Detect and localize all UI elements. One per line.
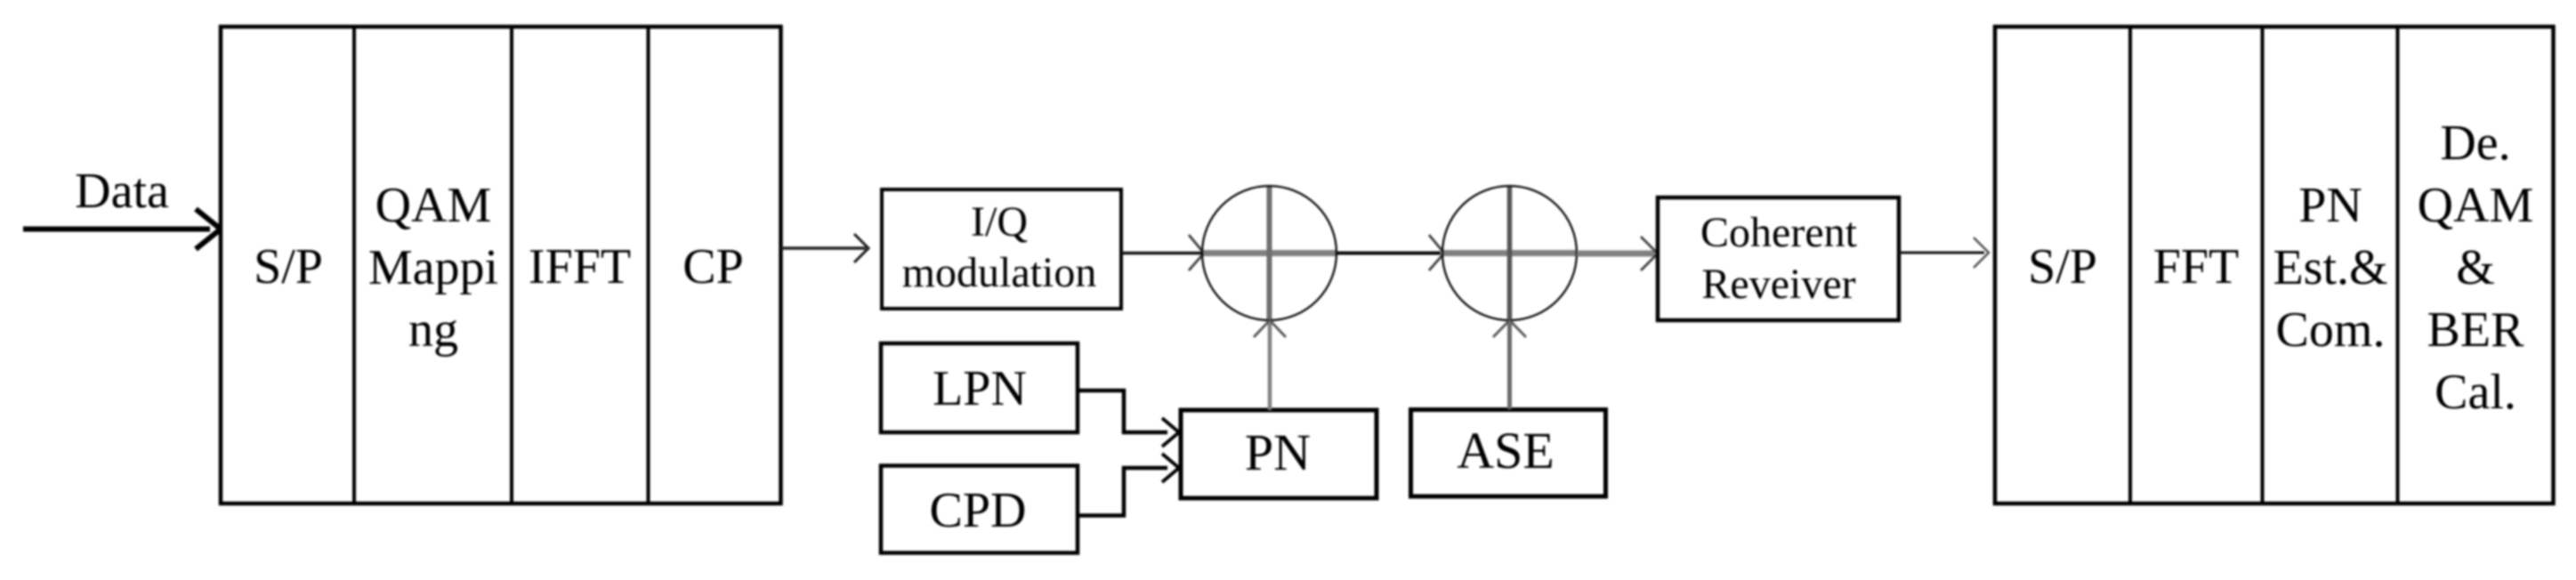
block I/Q modulation [882,189,1121,309]
wire adder A2 to Coherent Receiver [1577,237,1658,270]
svg-text:QAM: QAM [2418,178,2534,233]
block S/P (rx) [2028,239,2097,294]
wire PN to adder A1 [1254,320,1286,410]
wire Data input arrow [23,209,221,249]
svg-text:ng: ng [408,302,458,358]
wire divider S/P | FFT (rx) [2128,27,2132,503]
svg-text:CP: CP [682,239,744,294]
svg-text:S/P: S/P [2028,239,2097,294]
block CPD [881,466,1078,553]
svg-text:PN: PN [1245,423,1311,481]
svg-text:Data: Data [75,164,169,219]
block QAM Mapping [368,178,498,358]
svg-text:I/Q: I/Q [971,198,1028,246]
wire I/Q to adder A1 [1121,235,1204,270]
block S/P (tx) [254,239,323,294]
wire divider S/P | QAM [352,27,356,503]
svg-text:QAM: QAM [375,178,492,233]
block PN Est. & Com. [2273,178,2387,358]
wire LPN to PN [1078,391,1179,447]
node Data label [75,164,169,219]
block FFT [2153,239,2240,294]
block Coherent Receiver [1658,197,1899,320]
block CP [682,239,744,294]
wire ASE to adder A2 [1493,320,1526,409]
adder A1 [1202,186,1336,320]
svg-text:FFT: FFT [2153,239,2240,294]
svg-text:De.: De. [2440,116,2510,171]
block ASE [1411,410,1606,497]
svg-text:LPN: LPN [933,361,1027,416]
svg-text:Cal.: Cal. [2435,365,2516,420]
svg-text:BER: BER [2427,302,2525,358]
wire adder A1 to adder A2 [1336,235,1444,270]
svg-text:IFFT: IFFT [529,239,631,294]
wire divider QAM | IFFT [510,27,513,503]
block receiver box [1995,27,2554,503]
svg-text:Est.&: Est.& [2273,240,2387,295]
svg-text:Coherent: Coherent [1700,209,1858,256]
svg-text:Com.: Com. [2276,302,2386,358]
svg-text:&: & [2456,240,2495,295]
block LPN [881,343,1078,432]
block IFFT [529,239,631,294]
svg-text:Mappi: Mappi [368,240,498,295]
svg-text:S/P: S/P [254,239,323,294]
svg-text:CPD: CPD [930,483,1027,538]
svg-text:Reveiver: Reveiver [1701,261,1855,308]
block De. QAM & BER Cal. [2418,116,2534,420]
wire CP to I/Q modulation [781,234,869,262]
svg-text:PN: PN [2298,178,2362,233]
block transmitter box [221,27,781,503]
block PN [1181,410,1377,498]
wire divider FFT | PN Est (rx) [2261,27,2265,503]
svg-text:ASE: ASE [1457,422,1554,479]
wire divider IFFT | CP [647,27,650,503]
svg-text:modulation: modulation [902,249,1097,296]
adder A2 [1442,186,1577,320]
wire CPD to PN [1078,454,1179,516]
wire Coherent Receiver to receiver S/P [1899,238,1989,268]
wire divider PN Est | De.QAM (rx) [2396,27,2400,503]
